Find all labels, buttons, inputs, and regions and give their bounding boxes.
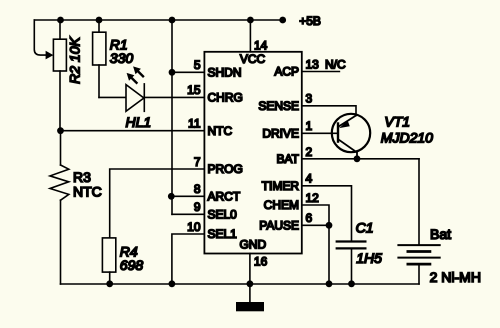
svg-text:330: 330 — [110, 50, 134, 66]
node collector-BAT — [354, 155, 361, 162]
thermistor R3 NTC — [50, 131, 102, 284]
svg-text:ARCT: ARCT — [208, 190, 241, 204]
node SHDN — [169, 69, 176, 76]
svg-text:SEL0: SEL0 — [208, 208, 238, 222]
battery Bat — [398, 159, 481, 285]
node ARCT — [168, 193, 175, 200]
svg-text:1H5: 1H5 — [356, 250, 382, 266]
wire pin11 NTC — [61, 130, 205, 132]
svg-text:13: 13 — [306, 57, 320, 71]
svg-text:CHRG: CHRG — [208, 91, 243, 105]
node SEL1-gnd — [169, 280, 176, 287]
svg-text:4: 4 — [306, 172, 313, 186]
LED HL1 — [99, 66, 204, 130]
wire pin10 SEL1 — [172, 234, 205, 284]
wire ground rail — [61, 283, 420, 285]
wire pin9 SEL0 — [172, 213, 204, 215]
wire pin13 ACP N/C — [302, 71, 340, 73]
svg-text:GND: GND — [239, 237, 266, 251]
svg-text:VT1: VT1 — [384, 114, 410, 130]
svg-text:6: 6 — [306, 211, 313, 225]
wire pin16 GND stub — [249, 254, 251, 285]
svg-text:ACP: ACP — [274, 65, 299, 79]
svg-text:PROG: PROG — [208, 162, 243, 176]
wire pin3 SENSE — [302, 106, 356, 116]
wire pin8 ARCT — [171, 195, 204, 197]
svg-text:SENSE: SENSE — [258, 99, 299, 113]
svg-text:1: 1 — [306, 119, 313, 133]
svg-text:12: 12 — [306, 191, 320, 205]
svg-text:11: 11 — [188, 117, 201, 131]
transistor Q1 VT1 — [332, 114, 433, 159]
svg-text:7: 7 — [194, 155, 201, 169]
node rail-R2 — [57, 17, 64, 24]
node NTC — [57, 127, 64, 134]
resistor R1 — [93, 20, 134, 97]
svg-text:10: 10 — [187, 220, 201, 234]
wire pin6 PAUSE — [302, 225, 329, 284]
node C1-gnd — [348, 280, 355, 287]
svg-text:PAUSE: PAUSE — [259, 219, 299, 233]
svg-text:14: 14 — [254, 38, 268, 52]
svg-text:CHEM: CHEM — [264, 198, 299, 212]
svg-text:16: 16 — [254, 255, 268, 269]
svg-text:N/C: N/C — [325, 58, 346, 72]
wire +5V top rail — [34, 19, 282, 21]
svg-text:5: 5 — [194, 58, 201, 72]
svg-text:+5B: +5B — [299, 14, 321, 28]
svg-text:NTC: NTC — [208, 124, 233, 138]
wire pin7 PROG — [110, 169, 205, 238]
node GND-rail — [247, 280, 254, 287]
wire pin4 TIMER — [302, 186, 352, 242]
svg-text:SHDN: SHDN — [208, 65, 242, 79]
wire R2 wiper — [34, 20, 46, 55]
wire SHDN/ARCT/SEL0 vertical — [171, 20, 173, 214]
svg-text:BAT: BAT — [277, 152, 300, 166]
node CHEM-gnd — [326, 280, 333, 287]
resistor R4 — [102, 238, 143, 284]
wire pin2 BAT — [302, 158, 419, 160]
node PAUSE-CHEM — [326, 222, 333, 229]
svg-text:R2 10K: R2 10K — [67, 36, 83, 83]
svg-text:3: 3 — [306, 92, 313, 106]
svg-text:C1: C1 — [356, 220, 374, 236]
terminal +5B dot — [279, 17, 286, 24]
svg-text:9: 9 — [194, 200, 201, 214]
resistor R2 (potentiometer) — [46, 20, 83, 131]
svg-text:NTC: NTC — [73, 184, 102, 200]
svg-text:HL1: HL1 — [126, 114, 152, 130]
node rail-SHDN — [169, 17, 176, 24]
svg-text:TIMER: TIMER — [262, 179, 300, 193]
ground — [236, 284, 264, 311]
svg-text:2 Ni-MH: 2 Ni-MH — [430, 269, 481, 285]
svg-text:698: 698 — [120, 257, 144, 273]
svg-text:2: 2 — [306, 145, 313, 159]
svg-text:SEL1: SEL1 — [208, 227, 238, 241]
wire pin1 DRIVE — [302, 132, 338, 134]
svg-text:DRIVE: DRIVE — [262, 127, 299, 141]
capacitor C1 — [337, 220, 382, 285]
op-amp U1 IC body — [204, 52, 301, 254]
svg-text:MJD210: MJD210 — [381, 130, 433, 146]
wire pin12 CHEM — [302, 205, 329, 225]
svg-text:VCC: VCC — [240, 52, 266, 66]
svg-text:Bat: Bat — [430, 226, 451, 242]
wire pin14 VCC stub — [249, 20, 251, 52]
svg-text:8: 8 — [194, 182, 201, 196]
node rail-R1 — [96, 17, 103, 24]
node R4-gnd — [106, 280, 113, 287]
svg-text:15: 15 — [187, 83, 201, 97]
wire pin5 SHDN — [172, 71, 204, 73]
node rail-VCC — [247, 17, 254, 24]
